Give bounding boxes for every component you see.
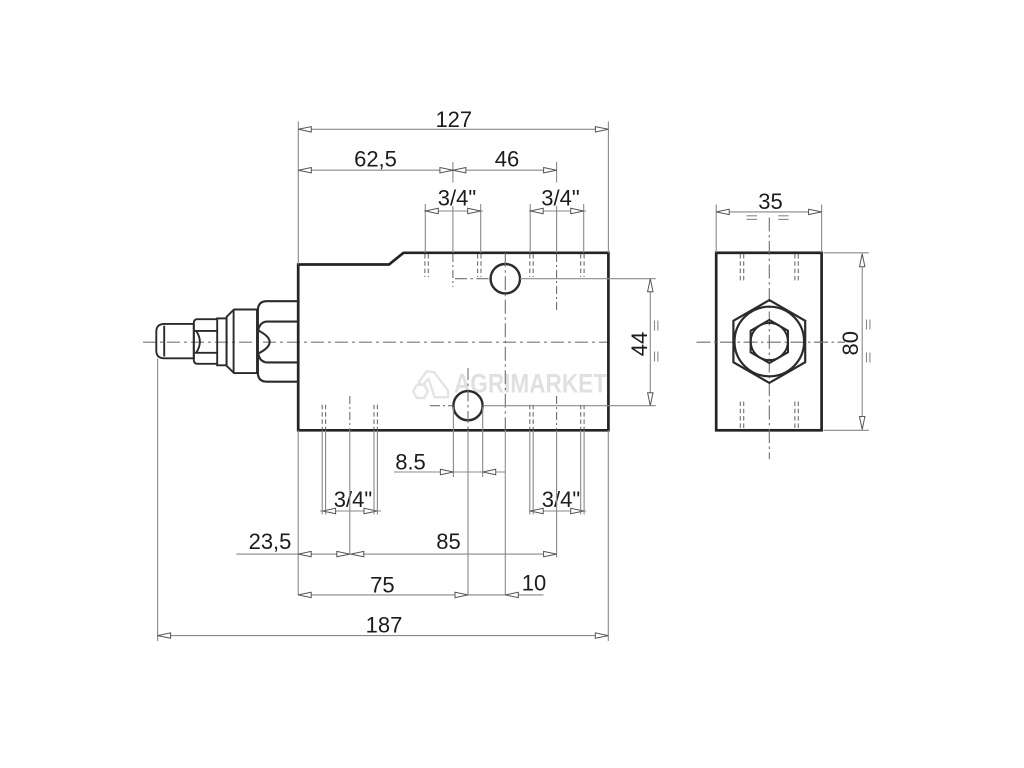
- stem collar: [217, 318, 226, 365]
- bottom-right port centerline: [556, 396, 558, 430]
- top-left port centerline: [452, 254, 454, 287]
- plug hexagon outer: [733, 300, 805, 383]
- top port circle: [491, 264, 520, 293]
- right view center vertical: [768, 218, 770, 460]
- dim 44: [650, 279, 658, 406]
- big hex nut: [258, 301, 299, 382]
- dim 3/4 top-left: [424, 204, 483, 253]
- dim 62,5 and 46: [298, 162, 556, 253]
- bottom port circle: [453, 391, 482, 420]
- svg-text:46: 46: [495, 147, 519, 172]
- bottom-left port centerline: [349, 396, 351, 430]
- svg-text:3/4": 3/4": [438, 186, 476, 211]
- plug chamfer circle: [735, 307, 805, 377]
- dim 23,5 and 85: [236, 430, 556, 595]
- main centerline: [143, 341, 610, 343]
- svg-text:127: 127: [435, 107, 472, 132]
- dim 187: [158, 359, 609, 642]
- right view center horizontal: [697, 341, 846, 343]
- svg-text:62,5: 62,5: [354, 147, 397, 172]
- right view rectangle: [716, 253, 821, 430]
- svg-text:3/4": 3/4": [334, 487, 372, 512]
- hidden thread lines top-left port: [425, 254, 481, 277]
- dim 3/4 bottom-right: [529, 430, 586, 514]
- dim 8.5: [394, 407, 506, 477]
- svg-text:3/4": 3/4": [542, 487, 580, 512]
- svg-text:23,5: 23,5: [249, 529, 292, 554]
- dim 75 and 10: [298, 594, 543, 596]
- top circle centerlines: [504, 253, 506, 430]
- dim 35: [716, 205, 821, 253]
- svg-text:85: 85: [436, 529, 460, 554]
- dim 80: [824, 253, 870, 430]
- stem cylinder: [227, 310, 257, 374]
- svg-text:75: 75: [370, 572, 394, 597]
- svg-text:10: 10: [522, 571, 546, 596]
- right view hidden thread lines bottom: [740, 402, 798, 430]
- svg-text:187: 187: [366, 613, 403, 638]
- dim 3/4 top-right: [529, 204, 586, 253]
- svg-text:80: 80: [838, 331, 863, 355]
- hidden thread lines top-right port: [530, 254, 584, 277]
- dim 3/4 bottom-left: [320, 430, 381, 514]
- stem small hex: [194, 319, 217, 364]
- main block outline: [298, 253, 608, 430]
- stem tip: [156, 324, 194, 358]
- right view hidden thread lines top: [740, 254, 798, 282]
- plug inner circle: [751, 323, 788, 360]
- svg-text:8.5: 8.5: [395, 450, 426, 475]
- svg-text:3/4": 3/4": [541, 186, 579, 211]
- dim 127: [298, 122, 608, 265]
- bottom circle centerlines: [467, 368, 469, 430]
- top-right port centerline: [556, 254, 558, 310]
- svg-text:44: 44: [627, 332, 652, 356]
- hidden thread lines bottom-left port: [322, 405, 377, 430]
- plug inner hex socket: [751, 320, 788, 363]
- hidden thread lines bottom-right port: [530, 405, 584, 430]
- svg-text:35: 35: [758, 189, 782, 214]
- watermark logo hexagon: [413, 371, 448, 398]
